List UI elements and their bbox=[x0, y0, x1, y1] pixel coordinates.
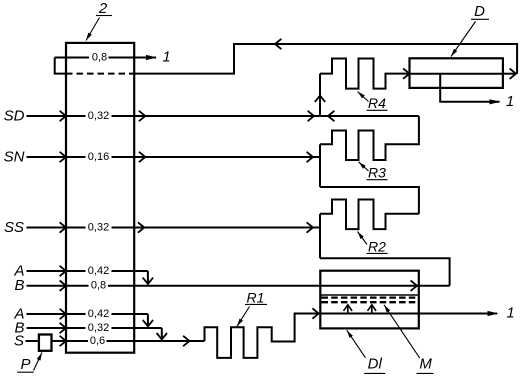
arrow SS after block bbox=[138, 222, 144, 232]
wire R2 return upper bbox=[320, 187, 419, 214]
svg-text:0,32: 0,32 bbox=[88, 110, 109, 122]
leader to Dl bbox=[347, 330, 366, 358]
wire feedback left loop bbox=[55, 58, 66, 74]
leader to P block bbox=[34, 353, 43, 371]
wire B1 row bbox=[27, 285, 89, 287]
leader to R3 bbox=[359, 162, 369, 171]
svg-text:0,32: 0,32 bbox=[88, 322, 109, 334]
wire A1 drop bbox=[147, 271, 149, 284]
svg-text:SN: SN bbox=[4, 149, 25, 166]
wire SD row bbox=[27, 115, 86, 117]
resistor R4 meander bbox=[320, 59, 410, 89]
arrow output 1 top bbox=[146, 55, 157, 60]
leader to R1 bbox=[237, 307, 250, 327]
svg-text:1: 1 bbox=[506, 305, 514, 322]
svg-text:R1: R1 bbox=[247, 289, 265, 305]
wire feedback right run to top bbox=[134, 44, 517, 74]
leader to R2 bbox=[358, 232, 368, 245]
svg-text:0,8: 0,8 bbox=[91, 280, 106, 292]
svg-text:B: B bbox=[14, 277, 24, 294]
wire A2 drop bbox=[147, 314, 149, 326]
leader to M bbox=[384, 305, 420, 358]
arrow B2 down to S bbox=[157, 333, 167, 339]
arrow SN before junction bbox=[307, 152, 313, 162]
arrow A2 into block bbox=[60, 309, 66, 319]
wire D output to riser bbox=[503, 73, 516, 75]
svg-text:1: 1 bbox=[162, 49, 170, 66]
wire 0,8 output row bbox=[55, 57, 89, 59]
arrow into D bbox=[403, 68, 409, 78]
wire D tap output bbox=[440, 74, 499, 102]
wire B2 row bbox=[27, 327, 86, 329]
arrow A2 down to B2 bbox=[143, 320, 153, 326]
arrow bottom output 1 bbox=[488, 311, 499, 316]
arrow D output into riser bbox=[510, 69, 516, 79]
membrane M dashed line upper bbox=[322, 296, 418, 298]
svg-text:S: S bbox=[14, 333, 24, 350]
arrow B1 into block bbox=[60, 281, 66, 291]
wire A1 row bbox=[27, 270, 86, 272]
arrow A1 down to B1 bbox=[143, 278, 153, 284]
wire SN row bbox=[27, 156, 86, 158]
svg-text:R4: R4 bbox=[368, 95, 386, 111]
svg-text:0,42: 0,42 bbox=[88, 308, 109, 320]
arrow up to M (left) bbox=[347, 306, 349, 314]
svg-text:SD: SD bbox=[4, 108, 25, 125]
wire A2 row bbox=[27, 313, 86, 315]
svg-text:M: M bbox=[419, 355, 432, 372]
wire dashed feedback through block 2 bbox=[66, 73, 134, 75]
svg-text:R3: R3 bbox=[368, 165, 386, 181]
wire riser to R4 bbox=[319, 74, 321, 116]
wire Dl return run bbox=[320, 258, 450, 285]
leader to block 2 bbox=[86, 18, 100, 41]
leader to D bbox=[451, 22, 476, 57]
arrow R3 return into junction bbox=[328, 111, 334, 121]
svg-text:0,6: 0,6 bbox=[90, 335, 105, 347]
arrow A1 into block bbox=[60, 266, 66, 276]
svg-text:R2: R2 bbox=[368, 238, 386, 254]
arrow S to R1 bbox=[183, 336, 189, 346]
svg-text:D: D bbox=[474, 3, 485, 20]
wire riser through SN junction bbox=[319, 144, 321, 187]
arrow B2 into block bbox=[60, 323, 66, 333]
wire S row to block bbox=[52, 340, 67, 342]
membrane M dashed line lower bbox=[322, 301, 418, 303]
arrow up to M (right) bbox=[371, 306, 373, 314]
wire B2 drop bbox=[161, 328, 163, 339]
wire S row left bbox=[26, 340, 39, 342]
resistor R3 meander bbox=[320, 116, 419, 160]
block Dl bbox=[320, 271, 419, 329]
arrow B1 inside Dl bbox=[411, 281, 417, 291]
arrow SD before junction bbox=[308, 111, 314, 121]
arrow D tap output 1 bbox=[490, 99, 501, 104]
arrow SS before junction bbox=[307, 222, 313, 232]
svg-text:0,8: 0,8 bbox=[92, 52, 107, 64]
arrow S into block bbox=[60, 336, 66, 346]
wire riser through SS junction bbox=[319, 214, 321, 258]
wire S to R1 bbox=[107, 340, 205, 342]
arrow SS into block bbox=[60, 222, 66, 232]
block D bbox=[410, 58, 503, 88]
block 2 (distribution block) bbox=[66, 43, 134, 353]
inner line in Dl bbox=[320, 294, 419, 296]
leader to R4 bbox=[358, 92, 369, 102]
resistor R2 meander bbox=[320, 200, 419, 230]
block P (sensor) bbox=[39, 335, 52, 351]
wire S row in block bbox=[66, 340, 88, 342]
svg-text:0,32: 0,32 bbox=[88, 222, 109, 234]
arrow left on top feedback wire bbox=[275, 39, 281, 49]
wire through D bbox=[410, 73, 503, 75]
arrow SD into block bbox=[60, 111, 66, 121]
svg-text:SS: SS bbox=[4, 219, 24, 236]
svg-text:P: P bbox=[20, 356, 30, 373]
arrow SD after block bbox=[139, 111, 145, 121]
svg-text:0,16: 0,16 bbox=[88, 151, 109, 163]
wire output row through Dl bbox=[320, 313, 497, 315]
arrow SN into block bbox=[60, 152, 66, 162]
svg-text:0,42: 0,42 bbox=[88, 265, 109, 277]
svg-text:2: 2 bbox=[98, 0, 108, 17]
svg-text:Dl: Dl bbox=[368, 355, 383, 372]
wire SS row bbox=[27, 227, 86, 229]
resistor R1 meander bbox=[205, 314, 319, 358]
svg-text:1: 1 bbox=[506, 93, 514, 110]
arrow up into R4 bbox=[315, 96, 325, 102]
arrow SN after block bbox=[139, 152, 145, 162]
arrow R1 into Dl bbox=[312, 308, 318, 318]
